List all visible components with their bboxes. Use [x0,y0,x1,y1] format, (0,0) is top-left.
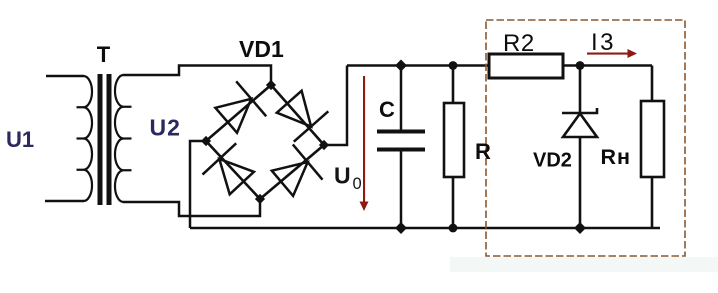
wire secondary top to bridge top node [123,66,271,86]
resistor R body [444,103,464,177]
load resistor RH bottom wire [651,177,654,228]
resistor R2 body [489,54,563,78]
diode VD1.2 (top to right) [277,91,329,142]
diode VD1.3 (bottom to left) [203,143,254,194]
node VD2 top [576,61,585,70]
stabilizer dashed box [486,20,685,256]
wire bridge edge left-top [206,85,271,141]
svg-text:VD1: VD1 [239,36,284,62]
svg-text:C: C [379,97,395,122]
node capacitor bottom [395,222,407,234]
node VD2 bottom [574,222,586,234]
node bridge top [266,80,276,90]
diode VD1.4 (bottom to right) [272,144,323,196]
svg-text:T: T [97,42,111,67]
transformer T secondary winding [115,75,132,202]
wire bottom rail [190,227,660,230]
node capacitor top [395,60,407,72]
wire bridge edge bottom-left [206,141,260,199]
wire bridge edge top-right [271,85,324,145]
svg-text:U1: U1 [6,127,34,152]
svg-text:Rн: Rн [601,145,632,169]
resistor R bottom wire [452,177,455,228]
svg-text:U: U [334,163,351,189]
wire top rail right section [563,64,652,67]
transformer T primary winding [77,76,93,201]
load resistor RH top wire [651,66,654,102]
svg-text:I3: I3 [591,29,616,56]
resistor R top wire [452,66,455,104]
svg-text:R: R [475,139,491,164]
arrow I3 [587,49,637,58]
node resistor R bottom [449,224,458,233]
svg-text:0: 0 [353,175,362,193]
load resistor RH body [641,101,664,177]
transformer T core [98,74,112,205]
label U0 [334,163,362,194]
node bridge left [201,136,211,146]
capacitor C bottom wire [400,151,403,228]
wire primary top lead [46,75,84,78]
svg-text:VD2: VD2 [533,150,572,172]
wire top rail left section [347,64,489,67]
svg-text:U2: U2 [150,115,181,141]
zener diode VD2 [562,66,597,229]
node bridge bottom [255,194,265,204]
diode VD1.1 (left to top) [215,81,266,133]
node bridge right [319,140,329,150]
wire bridge edge bottom-right [260,145,324,199]
capacitor C top wire [400,66,403,131]
wire bridge left node to bottom rail [190,141,206,228]
node resistor R top [449,61,458,70]
arrow U0 [360,76,369,211]
capacitor C plates [377,132,425,150]
svg-text:R2: R2 [503,30,535,57]
wire bridge right node to top rail [324,66,347,146]
wire secondary bottom to bridge bottom node [123,199,260,216]
wire primary bottom lead [45,200,84,203]
